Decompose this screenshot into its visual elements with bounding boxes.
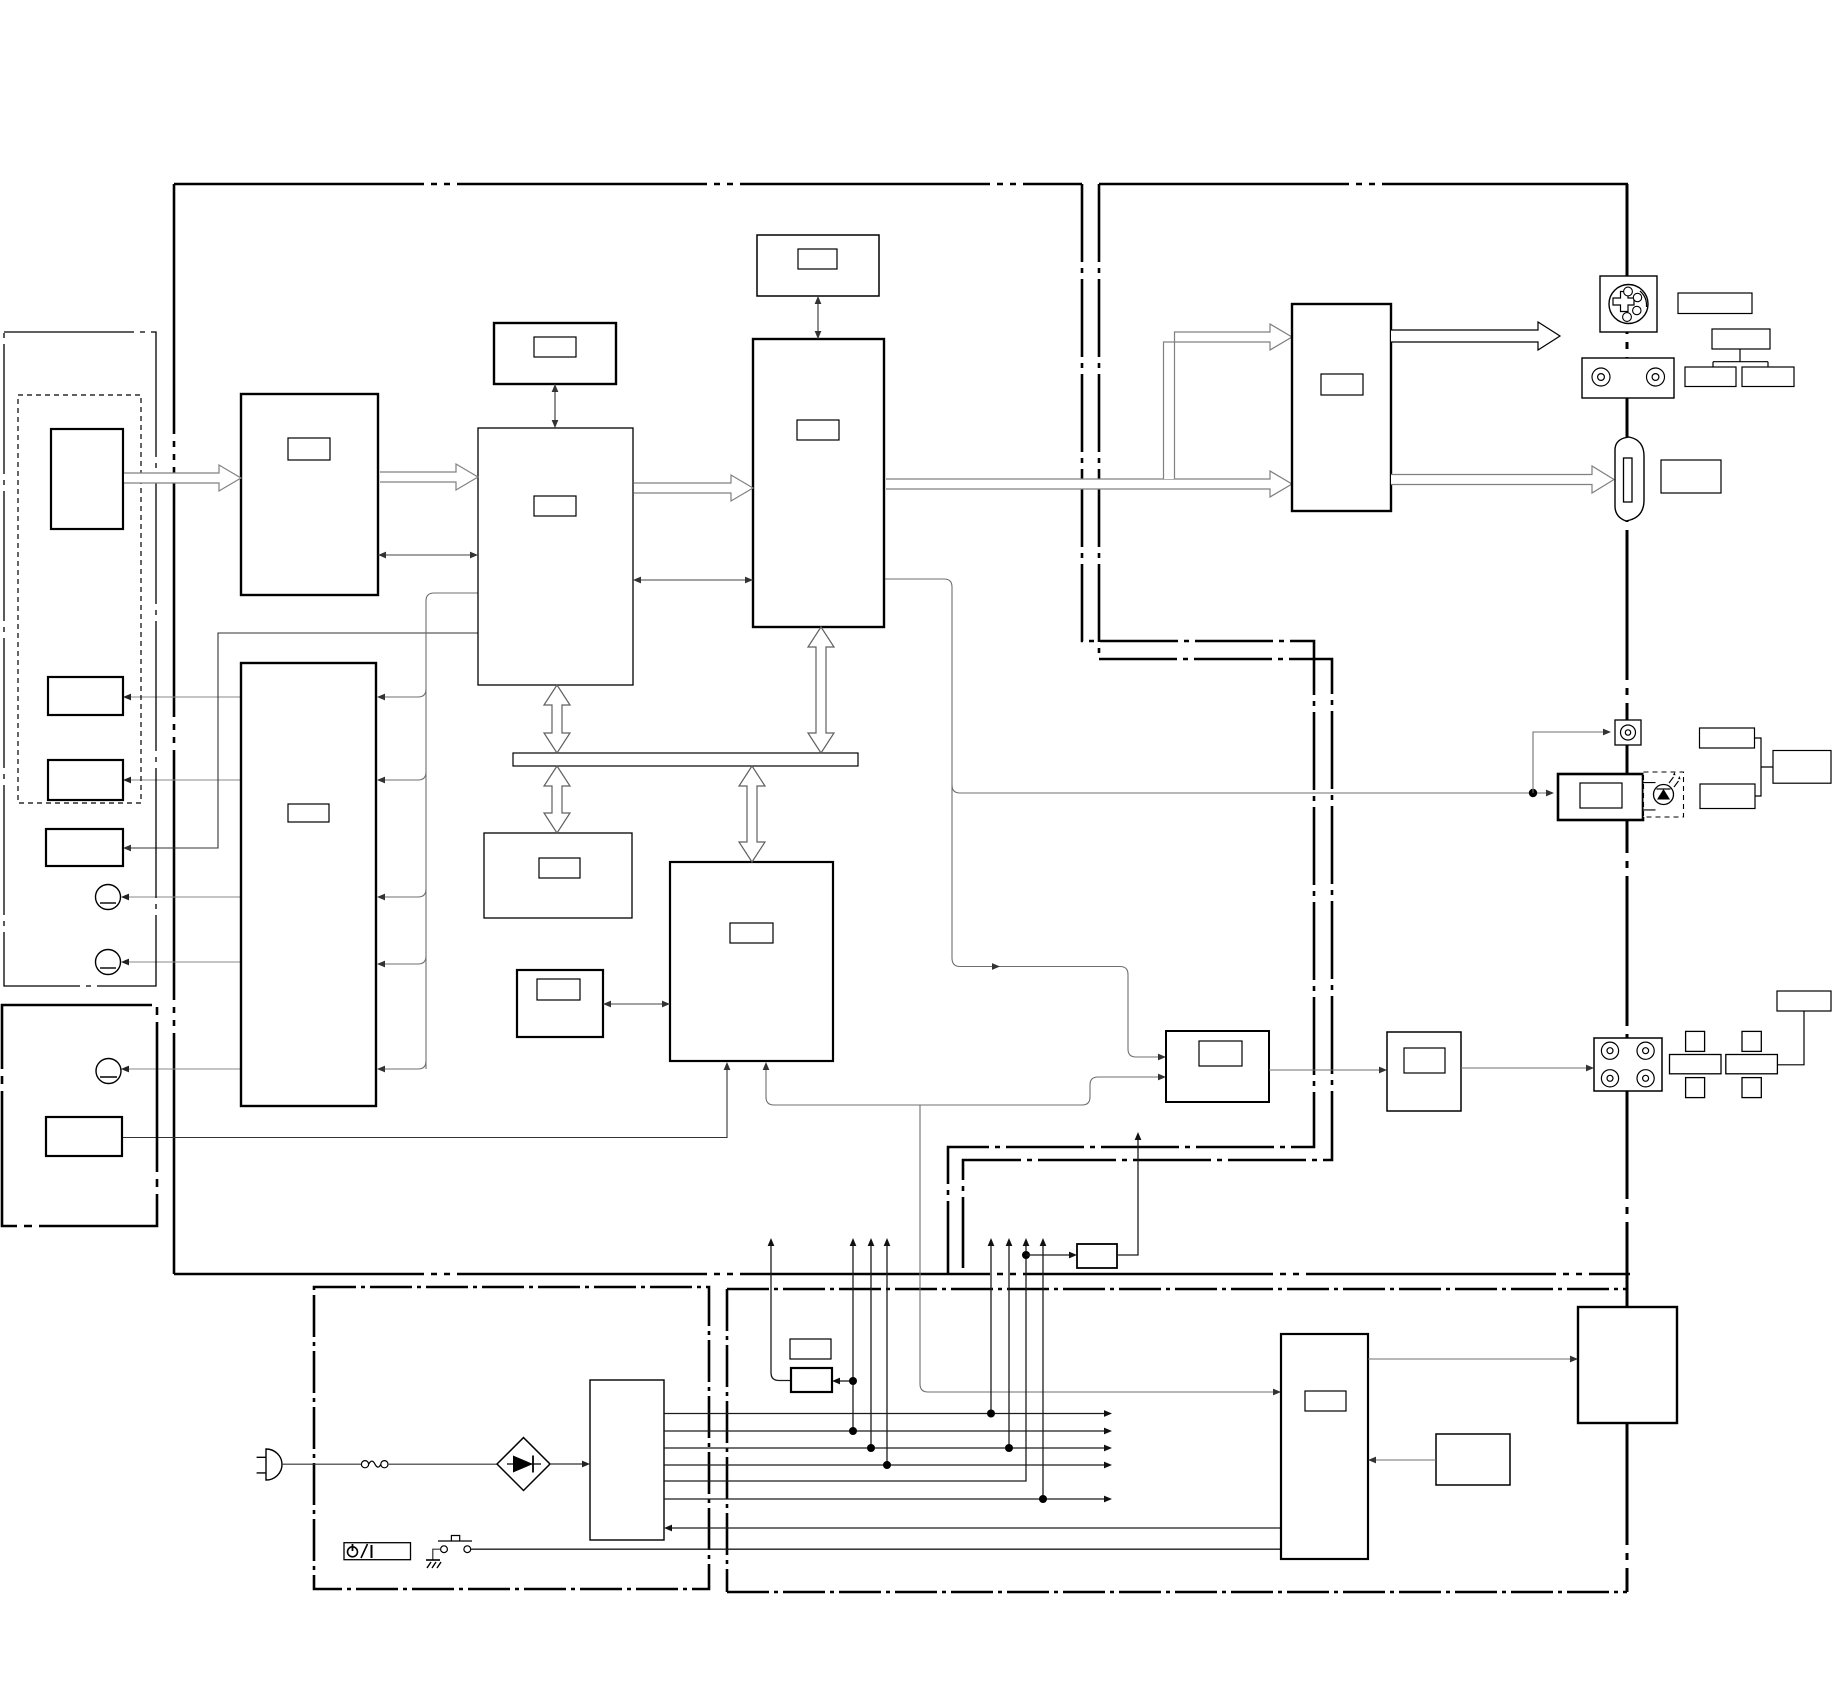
regulator IC label — [1305, 1391, 1346, 1411]
MPEG decoder block — [670, 862, 833, 1061]
data bus bar — [513, 753, 858, 766]
motor M2 — [96, 950, 121, 975]
MPEG decoder IC label — [730, 923, 773, 943]
front switch block — [48, 760, 123, 800]
S-video connector — [1600, 276, 1657, 332]
bus arrow data bus to flash ROM — [544, 766, 570, 833]
lower mechanism panel outline — [2, 1005, 157, 1226]
memory bus arrow SDRAM2 to AV decoder — [817, 296, 819, 339]
AV multi connector — [1615, 437, 1644, 521]
front sensor block — [48, 677, 123, 715]
power rail 2 — [664, 1430, 1106, 1432]
flash ROM IC label — [539, 858, 580, 878]
label box audio L — [1685, 367, 1736, 387]
wire DSP to display block — [127, 633, 478, 848]
junction dot rail5 riser tap — [1022, 1251, 1030, 1259]
fuse F1 — [361, 1461, 388, 1468]
junction dot riser 6 — [1039, 1495, 1047, 1503]
power rail 1 — [664, 1413, 1106, 1415]
EEPROM block — [517, 970, 603, 1037]
DSP IC label — [534, 496, 576, 516]
main digital board border bottom — [174, 1273, 1630, 1276]
label box remote sensor — [1700, 728, 1755, 748]
AV board border top — [1099, 183, 1628, 186]
video output arrow to S-video — [1391, 322, 1560, 350]
wire oscillator to regulator — [1374, 1459, 1436, 1461]
IR receiver label — [1580, 783, 1622, 808]
audio filter IC label — [1404, 1048, 1445, 1073]
power riser 1 — [990, 1244, 992, 1414]
audio filter block — [1387, 1032, 1461, 1111]
rear panel connector spine — [1626, 184, 1629, 1592]
wire switch to ground — [433, 1549, 441, 1560]
label box IR — [1700, 784, 1755, 809]
power riser 2 — [852, 1244, 854, 1431]
AV decoder IC label — [797, 420, 839, 440]
wire branch into system control at y=697 — [383, 689, 426, 697]
bus arrow data bus to MPEG decoder — [739, 766, 765, 862]
display block — [46, 829, 123, 866]
label merge wire — [1755, 738, 1774, 796]
system regulator block — [1281, 1334, 1368, 1559]
wire branch to IR receiver line — [952, 785, 1548, 793]
wire AV decoder to IR unit and DAC — [884, 579, 1162, 1057]
wire filter to rear audio jacks — [1461, 1067, 1588, 1069]
wire MPEG decoder audio net to DAC and standby — [766, 1066, 1162, 1105]
junction dot standby tap — [849, 1377, 857, 1385]
rear audio RCA pair connector — [1582, 358, 1674, 398]
junction dot riser 2 — [849, 1427, 857, 1435]
AC wire fuse to bridge — [388, 1463, 497, 1465]
control line EEPROM to MPEG decoder — [603, 1003, 670, 1005]
SDRAM1 IC label — [534, 337, 576, 357]
label box speakers — [1777, 991, 1831, 1011]
IR receiver block — [1558, 774, 1643, 820]
IR photo diode dashed unit — [1644, 772, 1684, 817]
wire branch into system control at y=780 — [383, 772, 426, 780]
audio section border left — [726, 1289, 729, 1592]
signal arrow DSP to AV decoder — [634, 475, 753, 501]
power rail 4 — [664, 1464, 1106, 1466]
control line DSP to AV decoder — [633, 579, 753, 581]
wire bridge to power block — [550, 1463, 584, 1465]
motor M1 — [96, 885, 121, 910]
pickup block — [51, 429, 123, 529]
AC plug icon — [257, 1449, 282, 1480]
wire regulator to rear corner block — [1368, 1358, 1572, 1360]
power supply section border — [314, 1287, 709, 1589]
power riser to standby sub-block — [771, 1244, 791, 1381]
junction dot riser 4 — [883, 1461, 891, 1469]
system control block — [241, 663, 376, 1106]
label box remote unit — [1773, 751, 1831, 784]
oscillator block — [1436, 1434, 1510, 1485]
bridge rectifier D1 — [497, 1438, 550, 1491]
regulator resistor block — [1077, 1244, 1117, 1268]
rear fan block — [1578, 1307, 1677, 1423]
SDRAM block 1 — [494, 323, 616, 384]
bus arrow DSP to data bus — [544, 685, 570, 753]
wire branch into system control at y=1069 — [383, 1061, 426, 1069]
wire branch up to rear RCA jack — [1533, 732, 1605, 793]
power riser 4 — [886, 1244, 888, 1465]
rear 4-RCA jack block — [1594, 1038, 1662, 1091]
standby sub block upper — [790, 1339, 831, 1359]
junction dot riser 1 — [987, 1410, 995, 1418]
RF amplifier block — [241, 394, 378, 595]
power riser 3b — [1008, 1244, 1010, 1448]
label box S-video — [1678, 293, 1752, 314]
front panel section outline — [4, 332, 156, 986]
power label box with standby symbol — [344, 1543, 411, 1560]
video encoder IC label — [1321, 374, 1363, 395]
audio section border top — [727, 1288, 1627, 1291]
label tree wire — [1713, 349, 1768, 367]
power rail 3 — [664, 1447, 1106, 1449]
speaker terminal cluster 2 — [1726, 1031, 1778, 1097]
wire DSP output distribution vertical — [426, 593, 478, 1069]
RF amp IC label — [288, 438, 330, 460]
wire system control to front sensor — [127, 696, 241, 698]
wire system control to motor M1 — [125, 896, 241, 898]
video signal arrow AV decoder to video encoder — [886, 471, 1292, 497]
label box video out — [1712, 329, 1770, 349]
video output arrow to AV connector — [1391, 466, 1614, 493]
switching power transformer block — [590, 1380, 664, 1540]
SDRAM block 2 — [757, 235, 879, 296]
power rail 6 — [664, 1498, 1106, 1500]
audio section border bottom — [727, 1591, 1627, 1594]
switch wire to audio section — [471, 1548, 1281, 1550]
power push switch S1 — [438, 1536, 472, 1553]
EEPROM IC label — [537, 979, 580, 1000]
main digital board border left — [173, 184, 176, 1274]
wire DAC to filter — [1269, 1069, 1381, 1071]
signal arrow pickup to RF amp — [124, 465, 241, 491]
wire system control to front switch — [127, 779, 241, 781]
digital signal processor block — [478, 428, 633, 685]
system control IC label — [288, 804, 329, 822]
wire system control to motor M2 — [125, 961, 241, 963]
video signal branch arrow upper input — [1164, 324, 1293, 479]
audio DAC IC label — [1199, 1041, 1242, 1066]
junction dot riser 3b — [1005, 1444, 1013, 1452]
junction node on IR line — [1529, 789, 1537, 797]
standby control wire to power block — [670, 1527, 1281, 1529]
motor M3 — [96, 1059, 121, 1084]
flash ROM block — [484, 833, 632, 918]
mechanism switch block — [46, 1117, 122, 1156]
wire to speaker label box — [1777, 1011, 1804, 1065]
power riser 6 — [1042, 1244, 1044, 1499]
wire branch into system control at y=897 — [383, 889, 426, 897]
inner dashed group outline — [18, 395, 141, 803]
AV decoder block — [753, 339, 884, 627]
memory bus arrow SDRAM1 to DSP — [554, 384, 556, 428]
AC wire plug to fuse — [282, 1463, 361, 1465]
wire riser2 tap to standby block — [838, 1380, 853, 1382]
label box AV out — [1661, 460, 1721, 493]
signal arrow RF amp to DSP — [380, 464, 478, 490]
junction dot riser 3a — [867, 1444, 875, 1452]
standby regulator sub block — [791, 1368, 832, 1392]
speaker terminal cluster 1 — [1670, 1031, 1722, 1097]
wire system control to motor M3 — [125, 1068, 241, 1070]
main digital board border top — [174, 183, 1082, 186]
control line RF amp to DSP — [378, 554, 478, 556]
main digital board border right stepped — [948, 184, 1314, 1274]
ground symbol — [426, 1560, 441, 1568]
SDRAM2 IC label — [798, 249, 837, 269]
wire branch down to audio section regulator — [920, 1105, 1277, 1392]
bus arrow AV decoder to data bus — [808, 627, 834, 753]
audio DAC block — [1166, 1031, 1269, 1102]
rear single RCA jack — [1615, 720, 1641, 745]
wire resistor up to AV board — [1117, 1138, 1138, 1255]
video encoder block — [1292, 304, 1391, 511]
wire branch into system control at y=964 — [383, 956, 426, 964]
wire mechanism switch block to MPEG decoder — [122, 1066, 727, 1138]
AV board border left stepped — [963, 184, 1332, 1268]
power rail 5 turning up as riser — [664, 1244, 1026, 1481]
label box audio R — [1742, 367, 1794, 387]
power riser 3a — [870, 1244, 872, 1448]
wire tap to regulator resistor — [1026, 1254, 1071, 1256]
